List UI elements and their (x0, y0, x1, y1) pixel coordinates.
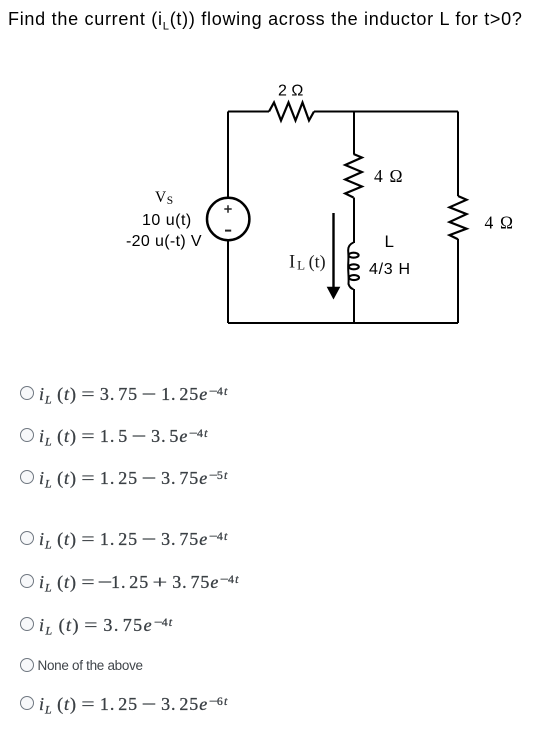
wire: bottom (228, 322, 458, 324)
svg-text:4 Ω: 4 Ω (374, 166, 404, 186)
inductor loop 3 (349, 275, 359, 280)
option 3 (19, 469, 21, 471)
option 4 (19, 530, 21, 532)
option 6 (19, 616, 21, 618)
option 2 (19, 427, 21, 429)
wire: right vertical lower (457, 239, 459, 323)
svg-text:2 Ω: 2 Ω (278, 83, 303, 100)
wire: left vertical lower (227, 241, 229, 323)
option 5 (19, 573, 21, 575)
wire: right vertical upper (457, 112, 459, 197)
svg-text:-20 u(-t) V: -20 u(-t) V (126, 233, 202, 250)
resistor R2 4-ohm (middle vertical) (345, 154, 362, 198)
svg-text:IL(t): IL(t) (289, 252, 326, 273)
inductor L rail (348, 243, 353, 290)
option 1 (19, 385, 21, 387)
svg-text:4/3 H: 4/3 H (369, 261, 411, 278)
inductor loop 2 (349, 264, 359, 269)
wire: middle vertical mid (353, 198, 355, 244)
resistor R1 2-ohm (top horizontal) (269, 103, 314, 121)
svg-text:4 Ω: 4 Ω (485, 213, 515, 233)
resistor R3 4-ohm (right vertical) (450, 196, 467, 239)
option 7 (19, 657, 21, 659)
wire: middle vertical upper (353, 112, 355, 155)
svg-text:10 u(t): 10 u(t) (142, 212, 192, 229)
voltage source VS (207, 198, 249, 240)
inductor loop 1 (349, 253, 359, 258)
polarity plus (224, 205, 231, 212)
svg-text:L: L (385, 232, 394, 251)
option 8 (19, 695, 21, 697)
current arrow IL(t) (332, 213, 334, 288)
polarity minus (225, 230, 231, 232)
wire: top-left segment (228, 111, 269, 113)
wire: left vertical upper (227, 112, 229, 199)
svg-text:VS: VS (155, 189, 173, 207)
wire: top-right segment (314, 111, 458, 113)
wire: middle vertical lower (353, 289, 355, 323)
